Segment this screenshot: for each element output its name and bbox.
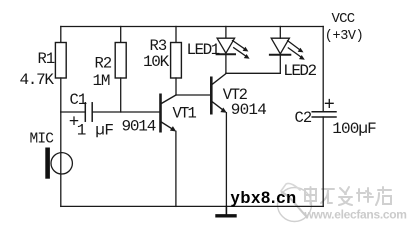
resistor R1 [55,43,66,79]
transistor VT2 [211,73,226,113]
wire LED1 anode [225,27,227,39]
wire R2 top [120,27,122,43]
svg-text:100µF: 100µF [332,120,376,138]
svg-text:1M: 1M [93,72,110,90]
svg-text:LED2: LED2 [283,62,316,80]
wire R1 bottom to C1 node [60,78,62,112]
resistor R3 [171,43,182,79]
wire right rail lower [322,117,324,206]
wire LED2 cathode down [279,55,281,74]
svg-text:+: + [324,95,335,116]
svg-text:VT1: VT1 [173,104,197,122]
microphone MIC [45,148,72,179]
wire ground bottom rail [61,205,323,207]
svg-text:VCC: VCC [332,11,355,27]
svg-text:www.elecfans.com: www.elecfans.com [304,208,407,222]
svg-text:10K: 10K [143,53,170,71]
wire VT2 emitter down to ground [225,113,227,207]
wire VT1 emitter down [175,131,177,206]
wire R2 bottom to base node [120,78,122,112]
wire left rail down to ground rail [60,112,62,206]
wire C1 to VT1 base [92,111,160,113]
LED LED1 [217,38,250,59]
watermark Chinese text 电子发烧友 [305,187,391,205]
svg-text:R2: R2 [95,54,112,72]
wire VT1 collector to VT2 base [176,94,211,96]
svg-text:C2: C2 [295,109,312,127]
wire LED1 cathode down to VT2 collector [225,54,227,73]
svg-text:MIC: MIC [30,131,55,147]
watermark logo circle [278,183,312,221]
svg-text:(+3V): (+3V) [325,29,364,44]
capacitor C1 [85,103,92,121]
wire VCC top rail [61,26,323,28]
ground [217,206,235,215]
svg-text:9014: 9014 [231,101,266,119]
wire R3 bottom to VT2 base node [175,78,177,95]
wire right rail upper [322,27,324,112]
svg-text:1 µF: 1 µF [77,122,114,140]
wire C1 input from left rail [61,111,86,113]
wire LED cathode bus [226,72,280,74]
svg-text:4.7K: 4.7K [20,71,55,89]
resistor R2 [115,43,126,79]
LED LED2 [270,38,305,60]
svg-text:C1: C1 [70,91,87,109]
wire LED2 anode [279,27,281,39]
svg-text:9014: 9014 [122,117,156,135]
svg-text:LED1: LED1 [187,41,220,59]
transistor VT1 [161,95,177,132]
svg-text:ybx8.cn: ybx8.cn [231,189,297,207]
wire R3 top [175,27,177,43]
wire left rail top to R1 [60,27,62,43]
capacitor C2 [312,112,336,117]
svg-text:R1: R1 [38,50,55,68]
